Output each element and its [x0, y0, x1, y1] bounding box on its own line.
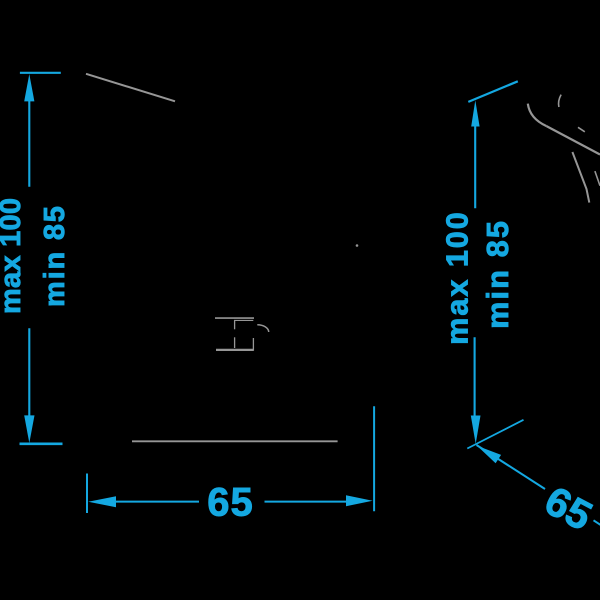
svg-text:max 100: max 100 — [0, 198, 27, 314]
svg-text:65: 65 — [207, 481, 254, 525]
svg-text:min 85: min 85 — [481, 219, 515, 329]
svg-text:max 100: max 100 — [440, 210, 474, 344]
svg-text:min 85: min 85 — [39, 204, 71, 307]
